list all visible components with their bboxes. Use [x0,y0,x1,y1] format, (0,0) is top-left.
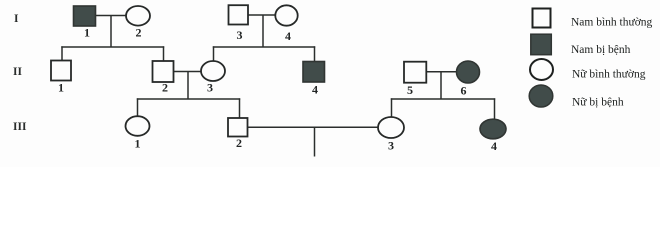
wire drop from couple II-2/II-3 [187,72,189,100]
legend normal male symbol [533,9,551,28]
individual II-2 normal male [153,61,174,82]
wire drop to III-1 [137,98,139,117]
svg-text:3: 3 [388,139,394,153]
svg-text:I: I [14,13,19,25]
wire sibship bar children of I-3/I-4 [213,46,315,48]
wire couple III-2 x III-3 [246,126,380,128]
wire couple II-5 x II-6 [425,71,458,73]
legend normal female symbol [530,59,553,80]
svg-text:1: 1 [135,137,141,151]
svg-text:III: III [13,121,27,133]
wire sibship bar children of II-5/II-6 [391,98,495,100]
individual III-2 normal male [228,118,248,137]
svg-text:2: 2 [236,136,242,150]
individual I-4 normal female [275,5,297,25]
wire drop to II-2 [163,46,165,62]
svg-text:4: 4 [285,29,291,43]
individual III-4 affected female [480,119,506,139]
svg-text:Nữ bị bệnh: Nữ bị bệnh [572,97,624,109]
svg-text:3: 3 [237,28,243,42]
individual II-6 affected female [457,61,480,83]
wire drop to III-4 [494,98,496,121]
wire sibship bar children of II-2/II-3 [137,98,240,100]
wire couple I-1 x I-2 [95,15,127,17]
svg-text:Nữ bình thường: Nữ bình thường [572,69,646,81]
wire drop to II-3 [213,46,215,62]
individual II-5 normal male [404,62,426,83]
individual II-3 normal female [201,61,225,81]
individual I-1 affected male [74,6,96,26]
svg-text:1: 1 [58,81,64,95]
wire couple I-3 x I-4 [247,14,277,16]
svg-text:II: II [13,66,22,78]
svg-text:6: 6 [461,84,467,98]
individual II-1 normal male [51,61,71,81]
svg-text:Nam bị bệnh: Nam bị bệnh [571,44,631,56]
individual I-2 normal female [126,6,150,26]
wire drop to III-2 [239,98,241,119]
legend affected male symbol [531,34,552,55]
wire drop from couple I-3/I-4 [262,15,264,47]
svg-text:Nam bình thường: Nam bình thường [571,17,653,29]
svg-text:2: 2 [136,26,142,40]
svg-text:4: 4 [491,139,497,153]
svg-text:3: 3 [207,81,213,95]
wire couple II-2 x II-3 [172,71,202,73]
svg-text:2: 2 [162,81,168,95]
legend affected female symbol [529,85,553,107]
individual II-4 affected male [303,62,325,83]
individual I-3 normal male [229,5,249,24]
wire drop from couple II-5/II-6 [440,72,442,99]
svg-text:1: 1 [84,25,90,39]
individual III-3 normal female [378,117,404,138]
individual III-1 normal female [126,116,150,136]
wire drop from couple I-1/I-2 [110,16,112,48]
wire offspring drop from couple III-2/III-3 [314,127,316,156]
wire sibship bar children of I-1/I-2 [61,46,164,48]
svg-text:5: 5 [407,83,413,97]
wire drop to II-4 [314,46,316,62]
wire drop to II-1 [61,46,63,61]
wire drop to III-3 [391,98,393,118]
svg-text:4: 4 [312,83,318,97]
